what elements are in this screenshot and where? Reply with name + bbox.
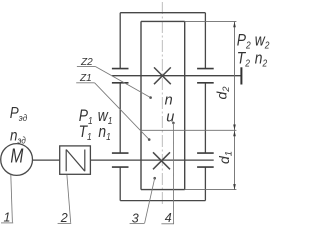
bearing upper-right bbox=[197, 69, 214, 83]
underline item 1 bbox=[1, 222, 13, 224]
svg-text:w2: w2 bbox=[255, 32, 270, 51]
svg-text:Pэд: Pэд bbox=[10, 105, 27, 123]
svg-text:3: 3 bbox=[132, 211, 139, 225]
gear z2 and pinion z1 blank rectangles (gear column) bbox=[141, 21, 185, 189]
svg-text:2: 2 bbox=[60, 211, 68, 225]
centerline of gear mesh (vertical dash-dot) bbox=[161, 2, 163, 204]
underline item 4 bbox=[161, 223, 174, 225]
arrow up at pitch line (d1) bbox=[233, 131, 236, 137]
underline item 2 bbox=[58, 222, 72, 224]
arrow down at pitch line (d2) bbox=[233, 125, 236, 131]
leader line item 1 (motor) bbox=[11, 175, 13, 223]
upper (output) shaft bbox=[112, 75, 242, 77]
svg-text:d1: d1 bbox=[216, 151, 235, 164]
svg-text:nэд: nэд bbox=[10, 127, 26, 145]
lower (input) shaft: motor to coupling bbox=[32, 159, 59, 161]
coupling N symbol bbox=[66, 150, 85, 172]
motor circle M bbox=[1, 144, 33, 176]
leader line item 2 (coupling) bbox=[67, 175, 71, 223]
leader line item 4 with dot bbox=[172, 122, 175, 125]
gear wheel z2 cross (fixed on upper shaft) bbox=[154, 67, 171, 84]
bearing lower-right bbox=[197, 153, 214, 167]
leader line item 3 with dot bbox=[153, 177, 156, 180]
coupling box bbox=[60, 146, 91, 174]
svg-text:4: 4 bbox=[165, 211, 172, 225]
svg-text:M: M bbox=[10, 145, 23, 167]
bearing upper-left bbox=[112, 69, 129, 83]
svg-text:u: u bbox=[166, 109, 174, 125]
bearing lower-left bbox=[112, 153, 129, 167]
extension line from gear bottom edge bbox=[185, 189, 237, 191]
underline item 3 bbox=[130, 223, 145, 225]
gearbox housing outline bbox=[120, 13, 205, 201]
pitch (mesh) line between gears bbox=[141, 129, 236, 131]
svg-text:P2: P2 bbox=[237, 32, 251, 51]
svg-text:d2: d2 bbox=[214, 86, 233, 100]
svg-text:1: 1 bbox=[4, 211, 11, 225]
output shaft end bar bbox=[240, 67, 242, 84]
arrow up at top (d2) bbox=[233, 22, 236, 28]
extension line from gear top edge bbox=[185, 20, 237, 22]
lower (input) shaft: coupling into gearbox bbox=[90, 159, 213, 161]
svg-text:T2: T2 bbox=[237, 49, 250, 68]
svg-text:n: n bbox=[165, 92, 173, 108]
dimension line d2/d1 (vertical) bbox=[234, 22, 236, 190]
pinion z1 cross (fixed on lower shaft) bbox=[153, 152, 170, 169]
svg-text:n2: n2 bbox=[255, 49, 267, 68]
arrow down at bottom (d1) bbox=[233, 184, 236, 190]
